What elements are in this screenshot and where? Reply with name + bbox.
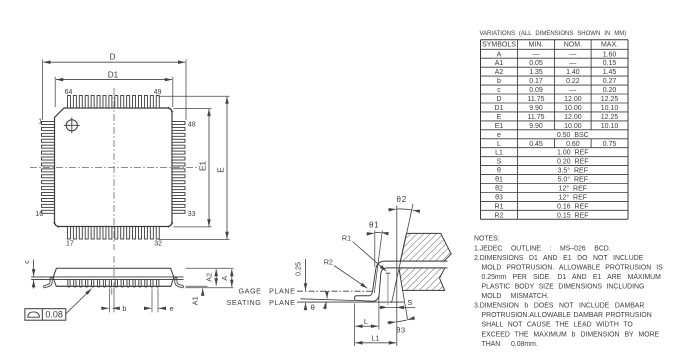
svg-text:16: 16 — [35, 211, 43, 218]
svg-text:11.75: 11.75 — [528, 96, 545, 103]
svg-text:—: — — [569, 87, 576, 94]
pin 1 index marker — [64, 117, 80, 133]
svg-text:VARIATIONS (ALL DIMENSIONS SHO: VARIATIONS (ALL DIMENSIONS SHOWN IN MM) — [480, 31, 627, 37]
dimension D — [43, 53, 187, 120]
variations table title — [480, 31, 627, 37]
dimension L — [355, 296, 379, 346]
svg-text:A2: A2 — [204, 273, 213, 282]
svg-text:SYMBOLS: SYMBOLS — [482, 42, 516, 49]
side view end lead left — [45, 279, 52, 287]
svg-text:θ3: θ3 — [495, 195, 503, 202]
svg-text:e: e — [497, 132, 501, 139]
svg-text:1.40: 1.40 — [566, 69, 580, 76]
svg-text:33: 33 — [188, 211, 196, 218]
svg-text:—: — — [533, 51, 540, 58]
svg-text:θ1: θ1 — [495, 177, 503, 184]
svg-text:64: 64 — [65, 89, 73, 96]
R1 radius center mark — [386, 273, 391, 305]
pins 33-48 right side — [172, 122, 185, 214]
seating plane label — [227, 298, 296, 307]
body corner chamfer ticks — [53, 107, 173, 228]
svg-text:10.00: 10.00 — [564, 105, 582, 112]
svg-text:c: c — [22, 260, 31, 264]
dimension A2 — [204, 269, 216, 285]
svg-text:R2: R2 — [495, 212, 504, 219]
svg-text:E1: E1 — [198, 161, 207, 171]
svg-text:0.60: 0.60 — [566, 141, 580, 148]
package body side view — [53, 268, 174, 286]
svg-text:48: 48 — [188, 122, 196, 129]
svg-text:0.20 REF: 0.20 REF — [557, 159, 589, 166]
extension lines A / A1 / A2 / seating plane — [186, 268, 234, 287]
svg-text:THAN 0.08mm.: THAN 0.08mm. — [482, 341, 538, 348]
svg-text:0.75: 0.75 — [603, 141, 617, 148]
svg-text:θ1: θ1 — [369, 221, 380, 230]
svg-text:12.00: 12.00 — [564, 114, 582, 121]
body bottom edge over leads — [56, 285, 171, 287]
dimension D1 — [55, 71, 173, 108]
svg-text:5.0° REF: 5.0° REF — [558, 176, 588, 184]
svg-text:12° REF: 12° REF — [559, 194, 587, 202]
svg-text:A: A — [220, 276, 229, 281]
svg-text:12° REF: 12° REF — [559, 185, 587, 193]
seating plane line — [297, 301, 404, 303]
svg-text:E1: E1 — [495, 123, 504, 130]
pins 49-64 top side — [67, 96, 159, 109]
svg-text:L: L — [497, 141, 501, 148]
dimension theta1 — [367, 221, 386, 293]
svg-text:b: b — [497, 78, 501, 85]
dimension e (lead pitch) — [144, 289, 173, 314]
dimension 0.25 (gage plane offset) — [294, 259, 306, 309]
svg-text:b: b — [122, 304, 126, 313]
svg-text:A1: A1 — [495, 60, 504, 67]
pin number labels — [35, 89, 195, 248]
hatched body section upper — [400, 233, 451, 261]
dimension theta2 — [388, 195, 419, 211]
svg-text:0.20: 0.20 — [603, 87, 617, 94]
svg-text:0.22: 0.22 — [566, 78, 580, 85]
package body top view U1 — [55, 108, 173, 227]
svg-text:EXCEED THE MAXIMUM b DIMENSION: EXCEED THE MAXIMUM b DIMENSION BY MORE — [482, 331, 660, 338]
dimension c (lead thickness) — [22, 260, 44, 289]
side view vertical centerline — [113, 256, 115, 291]
dimension L1 — [355, 333, 396, 343]
pins 1-16 left side — [42, 122, 55, 214]
side view end lead right — [176, 279, 183, 287]
coplanarity tolerance frame 0.08 — [25, 309, 66, 321]
svg-text:11.75: 11.75 — [528, 114, 545, 121]
svg-text:0.25: 0.25 — [294, 262, 303, 276]
leader line from tolerance frame to lead foot — [66, 289, 92, 314]
svg-text:D1: D1 — [495, 105, 504, 112]
svg-text:MAX.: MAX. — [601, 42, 618, 49]
svg-text:A2: A2 — [495, 69, 504, 76]
svg-text:e: e — [170, 304, 174, 313]
theta2/theta3 vertical reference line — [396, 205, 398, 346]
svg-text:NOM.: NOM. — [564, 42, 582, 49]
svg-text:0.27: 0.27 — [603, 78, 617, 85]
svg-text:L: L — [364, 317, 368, 326]
leader R1 — [342, 234, 386, 272]
svg-text:1: 1 — [38, 118, 42, 125]
svg-text:A: A — [497, 51, 502, 58]
svg-text:MIN.: MIN. — [529, 42, 544, 49]
svg-text:1.60: 1.60 — [603, 51, 617, 58]
svg-text:D: D — [496, 96, 501, 103]
svg-text:PLASTIC BODY SIZE DIMENSIONS I: PLASTIC BODY SIZE DIMENSIONS INCLUDING — [482, 284, 645, 291]
svg-text:θ: θ — [311, 303, 315, 312]
svg-text:3.5° REF: 3.5° REF — [558, 167, 588, 175]
dimension theta3 — [387, 318, 414, 334]
svg-text:θ: θ — [497, 168, 501, 175]
svg-text:3.DIMENSION b DOES NOT INCLUDE: 3.DIMENSION b DOES NOT INCLUDE DAMBAR — [474, 303, 644, 310]
svg-text:θ3: θ3 — [396, 325, 406, 334]
gage plane line — [297, 290, 376, 292]
svg-text:θ2: θ2 — [397, 195, 408, 204]
svg-text:A1: A1 — [191, 296, 200, 305]
svg-text:MOLD MISMATCH.: MOLD MISMATCH. — [482, 293, 549, 300]
leader R2 — [324, 257, 368, 288]
svg-text:S: S — [407, 298, 412, 307]
svg-text:12.25: 12.25 — [601, 96, 619, 103]
svg-text:1.00 REF: 1.00 REF — [557, 150, 589, 157]
svg-text:17: 17 — [66, 241, 74, 248]
svg-text:10.10: 10.10 — [601, 123, 619, 130]
svg-text:12.00: 12.00 — [564, 96, 582, 103]
svg-text:—: — — [569, 51, 576, 58]
svg-text:R1: R1 — [495, 203, 504, 210]
svg-text:L1: L1 — [372, 333, 380, 342]
svg-text:49: 49 — [154, 89, 162, 96]
dimension E — [159, 96, 230, 239]
horizontal centerline top view — [30, 167, 199, 169]
dimension A — [220, 269, 232, 287]
svg-text:12.25: 12.25 — [601, 114, 619, 121]
svg-text:R1: R1 — [342, 234, 351, 243]
hatched body section lower — [399, 268, 445, 291]
svg-text:10.10: 10.10 — [601, 105, 619, 112]
svg-text:0.50 BSC: 0.50 BSC — [557, 132, 589, 139]
svg-text:1.35: 1.35 — [529, 69, 543, 76]
pins 17-32 bottom side — [67, 227, 159, 240]
dimension E1 — [174, 109, 212, 227]
svg-text:0.08: 0.08 — [45, 309, 63, 319]
variations table — [481, 40, 629, 220]
dimension A1 — [191, 289, 203, 306]
svg-text:GAGE PLANE: GAGE PLANE — [238, 287, 295, 296]
svg-text:32: 32 — [154, 241, 162, 248]
svg-text:θ2: θ2 — [495, 186, 503, 193]
svg-text:9.90: 9.90 — [529, 123, 543, 130]
svg-text:c: c — [497, 87, 501, 94]
svg-text:SEATING PLANE: SEATING PLANE — [227, 298, 296, 307]
svg-text:L1: L1 — [495, 150, 503, 157]
svg-text:S: S — [497, 159, 502, 166]
svg-text:D1: D1 — [108, 71, 119, 80]
svg-text:1.JEDEC OUTLINE : MS–026 BCD.: 1.JEDEC OUTLINE : MS–026 BCD. — [474, 245, 611, 252]
svg-text:R2: R2 — [324, 257, 333, 266]
dimension S — [379, 298, 415, 308]
side view centerline extension — [113, 289, 115, 313]
svg-text:—: — — [569, 60, 576, 67]
svg-text:MOLD PROTRUSION. ALLOWABLE PRO: MOLD PROTRUSION. ALLOWABLE PROTRUSION IS — [482, 264, 664, 271]
svg-text:10.00: 10.00 — [564, 123, 582, 130]
svg-text:NOTES:: NOTES: — [474, 236, 500, 243]
svg-text:0.09: 0.09 — [529, 87, 543, 94]
svg-text:SHALL NOT CAUSE THE LEAD WIDTH: SHALL NOT CAUSE THE LEAD WIDTH TO — [482, 322, 634, 329]
vertical centerline top view — [113, 88, 115, 250]
svg-text:D: D — [110, 53, 116, 62]
svg-text:PROTRUSION.ALLOWABLE DAMBAR PR: PROTRUSION.ALLOWABLE DAMBAR PROTRUSION — [482, 312, 652, 319]
foot angle theta extension line — [301, 299, 355, 301]
svg-text:0.17: 0.17 — [529, 78, 543, 85]
svg-text:2.DIMENSIONS D1 AND E1 DO NOT: 2.DIMENSIONS D1 AND E1 DO NOT INCLUDE — [474, 255, 644, 262]
side view leads (near row feet) — [68, 279, 159, 287]
svg-text:E: E — [217, 167, 226, 173]
svg-text:0.25mm PER SIDE. D1 AND E1 ARE: 0.25mm PER SIDE. D1 AND E1 ARE MAXIMUM — [482, 274, 662, 281]
svg-text:0.45: 0.45 — [529, 141, 543, 148]
lead detail gull-wing lead — [355, 261, 448, 301]
svg-text:E: E — [497, 114, 502, 121]
side view lead band (near row horizontal sections) — [32, 277, 184, 280]
body face slant reference line (theta2) — [392, 204, 414, 303]
dimension b (lead width) — [102, 289, 127, 314]
gage plane label — [238, 287, 295, 296]
svg-text:0.05: 0.05 — [529, 60, 543, 67]
dimension theta (foot angle) — [311, 291, 328, 312]
notes text — [474, 236, 663, 348]
svg-text:9.90: 9.90 — [529, 105, 543, 112]
svg-text:0.16 REF: 0.16 REF — [557, 203, 589, 210]
svg-text:0.15: 0.15 — [603, 60, 617, 67]
svg-text:1.45: 1.45 — [603, 69, 617, 76]
svg-text:0.15 REF: 0.15 REF — [557, 212, 589, 219]
lower body face slant reference line (theta3) — [403, 290, 408, 319]
